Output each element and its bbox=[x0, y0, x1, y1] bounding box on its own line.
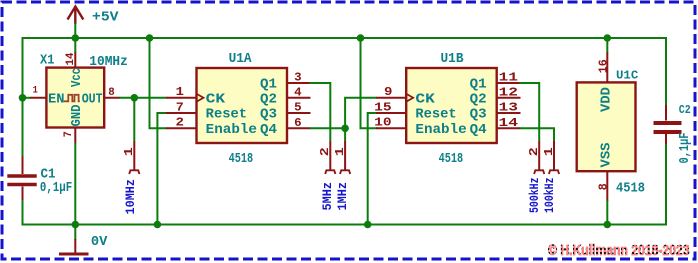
svg-text:Q2: Q2 bbox=[470, 92, 487, 107]
wire X1 EN pin stub green bbox=[23, 97, 32, 99]
wire Vcc to rail bbox=[74, 38, 76, 53]
pin 5MHz stub pin 2 bbox=[325, 141, 335, 174]
pin U1A pin7 Reset bbox=[166, 112, 197, 114]
counter U1B body bbox=[406, 68, 497, 143]
node U1C VDD rail junction bbox=[604, 34, 612, 42]
svg-text:0V: 0V bbox=[91, 234, 108, 250]
counter U1A body bbox=[197, 68, 288, 143]
pin U1B pin13 Q3 bbox=[497, 112, 521, 114]
node +5V junction bbox=[72, 34, 80, 42]
node U1B enable rail junction bbox=[357, 34, 365, 42]
svg-text:0,1µF: 0,1µF bbox=[678, 133, 693, 164]
wire left rail lower bbox=[22, 199, 24, 226]
pin U1A pin3 Q1 bbox=[287, 82, 311, 84]
svg-text:Reset: Reset bbox=[415, 108, 456, 123]
pin U1C pin8 VSS bbox=[606, 171, 608, 201]
svg-text:GND: GND bbox=[70, 105, 85, 127]
svg-text:VSS: VSS bbox=[600, 143, 615, 168]
ground symbol bbox=[59, 239, 89, 254]
svg-text:Enable: Enable bbox=[415, 123, 466, 138]
svg-text:10MHz: 10MHz bbox=[89, 55, 128, 70]
pin U1B pin9 CK bbox=[376, 97, 406, 99]
svg-text:5MHz: 5MHz bbox=[320, 182, 335, 211]
wire Q1 to 5MHz stub bbox=[310, 83, 331, 141]
wire top +5V rail bbox=[23, 37, 667, 39]
svg-text:1: 1 bbox=[542, 147, 556, 156]
node U1B reset rail junction bbox=[364, 221, 372, 229]
svg-text:CK: CK bbox=[206, 92, 226, 107]
node GND junction bbox=[72, 221, 80, 229]
svg-text:14: 14 bbox=[499, 116, 519, 130]
svg-text:Q2: Q2 bbox=[260, 92, 277, 107]
svg-text:10MHz: 10MHz bbox=[123, 179, 138, 215]
svg-text:2: 2 bbox=[176, 116, 185, 130]
svg-text:X1: X1 bbox=[40, 54, 55, 69]
svg-text:© H.Kullmann 2018-2023: © H.Kullmann 2018-2023 bbox=[548, 242, 690, 259]
pin 500kHz stub pin 2 bbox=[534, 141, 544, 174]
svg-text:CK: CK bbox=[415, 92, 435, 107]
svg-text:1: 1 bbox=[33, 85, 38, 96]
svg-text:4518: 4518 bbox=[439, 152, 464, 167]
node enable rail junction bbox=[146, 34, 154, 42]
svg-text:4518: 4518 bbox=[616, 182, 645, 197]
svg-text:4518: 4518 bbox=[229, 152, 254, 167]
pin 10MHz stub pin 1 bbox=[129, 141, 139, 174]
pin U1A pin1 CK bbox=[166, 97, 197, 99]
node Q4 junction bbox=[341, 125, 349, 133]
pin U1A pin4 Q2 bbox=[287, 97, 311, 99]
wire VDD stem bbox=[606, 38, 608, 53]
pin U1B pin15 Reset bbox=[376, 112, 406, 114]
svg-text:500kHz: 500kHz bbox=[527, 178, 542, 214]
svg-text:100kHz: 100kHz bbox=[542, 178, 557, 214]
svg-text:Q4: Q4 bbox=[470, 123, 487, 138]
+5V supply symbol arrow bbox=[68, 7, 84, 25]
pin U1C pin16 VDD bbox=[606, 52, 608, 82]
oscillator X1 body bbox=[46, 68, 104, 128]
pin 100kHz stub pin 1 bbox=[549, 141, 559, 174]
svg-text:9: 9 bbox=[384, 85, 393, 99]
pin 1MHz stub pin 1 bbox=[340, 141, 350, 174]
svg-text:U1B: U1B bbox=[441, 52, 464, 67]
svg-text:7: 7 bbox=[63, 131, 75, 137]
svg-text:2: 2 bbox=[527, 147, 541, 156]
svg-text:6: 6 bbox=[294, 116, 302, 130]
svg-text:U1C: U1C bbox=[616, 70, 638, 83]
svg-text:Q1: Q1 bbox=[470, 77, 487, 92]
capacitor C2 bbox=[654, 105, 682, 144]
wire U1A reset to 0V bbox=[157, 113, 167, 225]
svg-text:C2: C2 bbox=[679, 104, 691, 117]
svg-text:Enable: Enable bbox=[206, 123, 257, 138]
svg-text:OUT: OUT bbox=[82, 93, 103, 108]
svg-text:14: 14 bbox=[65, 52, 77, 66]
wire U1A enable from +5V bbox=[150, 38, 168, 128]
svg-text:16: 16 bbox=[596, 59, 610, 73]
node X1 EN junction bbox=[19, 94, 27, 102]
pin U1B pin10 Enable bbox=[376, 127, 406, 129]
wire GND stem bbox=[74, 225, 76, 241]
wire junction to U1B CK bbox=[345, 98, 376, 129]
wire Q4 to junction bbox=[310, 127, 346, 129]
svg-text:2: 2 bbox=[318, 147, 332, 156]
svg-text:13: 13 bbox=[499, 101, 519, 115]
svg-text:Q4: Q4 bbox=[260, 123, 277, 138]
svg-text:12: 12 bbox=[499, 85, 519, 99]
capacitor C1 bbox=[7, 156, 36, 200]
pin U1B pin14 Q4 bbox=[497, 127, 521, 129]
svg-text:8: 8 bbox=[108, 87, 115, 99]
node reset rail junction bbox=[154, 221, 162, 229]
svg-text:1: 1 bbox=[122, 147, 136, 156]
svg-text:+5V: +5V bbox=[92, 11, 119, 26]
pin U1B pin12 Q2 bbox=[497, 97, 521, 99]
svg-text:5: 5 bbox=[294, 101, 302, 115]
svg-text:3: 3 bbox=[294, 71, 302, 85]
wire U1B Q1 to 500kHz stub bbox=[520, 83, 540, 141]
svg-text:15: 15 bbox=[374, 100, 392, 114]
node OUT junction bbox=[131, 94, 139, 102]
svg-text:Vcc: Vcc bbox=[70, 68, 85, 87]
power U1C body bbox=[577, 82, 636, 171]
svg-text:U1A: U1A bbox=[229, 52, 253, 67]
wire +5V stem bbox=[74, 23, 76, 38]
svg-text:0,1µF: 0,1µF bbox=[40, 181, 72, 196]
svg-text:11: 11 bbox=[499, 71, 519, 85]
pin X1 pin14 Vcc bbox=[74, 52, 76, 68]
svg-text:Q3: Q3 bbox=[470, 108, 487, 123]
svg-text:8: 8 bbox=[596, 183, 610, 190]
wire junction to 1MHz stub bbox=[344, 128, 346, 141]
svg-text:1MHz: 1MHz bbox=[335, 182, 350, 211]
pin U1A pin2 Enable bbox=[166, 127, 197, 129]
svg-text:Reset: Reset bbox=[206, 108, 247, 123]
svg-text:7: 7 bbox=[176, 100, 184, 114]
wire bottom 0V rail bbox=[23, 224, 667, 226]
svg-text:VDD: VDD bbox=[600, 87, 615, 112]
svg-text:1: 1 bbox=[176, 85, 185, 99]
squarewave glyph bbox=[64, 95, 80, 102]
wire VSS stem bbox=[606, 200, 608, 225]
pin U1A pin6 Q4 bbox=[287, 127, 311, 129]
svg-text:10: 10 bbox=[374, 116, 392, 130]
wire U1B enable from +5V bbox=[361, 38, 378, 128]
clock wedge bbox=[197, 94, 204, 102]
svg-text:Q1: Q1 bbox=[260, 77, 277, 92]
wire X1 OUT to CK bbox=[119, 97, 166, 99]
svg-text:4: 4 bbox=[294, 85, 302, 99]
pin X1 pin7 GND bbox=[74, 128, 76, 144]
wire right rail upper bbox=[665, 37, 667, 106]
svg-text:EN: EN bbox=[48, 93, 65, 108]
wire left rail upper bbox=[22, 37, 24, 157]
svg-text:Q3: Q3 bbox=[260, 108, 277, 123]
pin X1 pin8 OUT bbox=[104, 97, 120, 99]
wire right rail lower bbox=[665, 143, 667, 226]
pin U1B pin11 Q1 bbox=[497, 82, 521, 84]
wire pin7 to rail bbox=[74, 143, 76, 225]
pin U1A pin5 Q3 bbox=[287, 112, 311, 114]
svg-text:1: 1 bbox=[333, 147, 347, 156]
wire U1B reset to 0V bbox=[368, 113, 377, 225]
node U1C VSS rail junction bbox=[604, 221, 612, 229]
wire 10MHz stub bbox=[133, 98, 135, 141]
pin X1 pin1 EN bbox=[30, 97, 46, 99]
wire U1B Q4 to 100kHz stub bbox=[520, 128, 555, 141]
clock wedge bbox=[406, 94, 413, 102]
